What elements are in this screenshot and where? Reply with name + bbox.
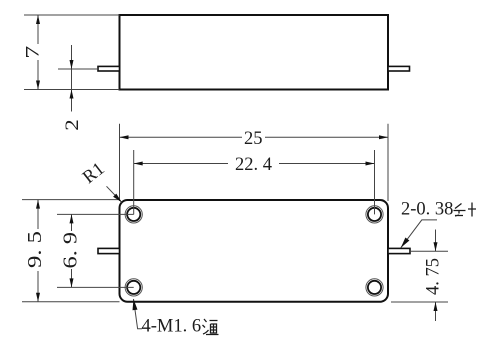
svg-text:6. 9: 6. 9 (60, 232, 82, 269)
top view right pin (388, 66, 410, 71)
svg-text:R1: R1 (79, 159, 108, 188)
top view top edge extension line (24, 14, 120, 16)
hole bottom-right (M1.6) (366, 279, 383, 296)
svg-text:9. 5: 9. 5 (24, 231, 46, 268)
hole top-left (M1.6) (125, 206, 142, 223)
hole bottom-left (M1.6) (125, 279, 142, 296)
dimension 4.75 (pin height, right side) (391, 230, 448, 322)
svg-text:2-0. 38: 2-0. 38 (401, 200, 453, 220)
dimension 9.5 (body height) (22, 200, 120, 302)
dimension 25 (overall width) (120, 124, 389, 201)
svg-text:25: 25 (244, 129, 263, 149)
top view body outline (120, 15, 389, 90)
top view bottom edge extension line (24, 89, 120, 91)
label R1 (corner radius) (79, 159, 122, 202)
label 2-0.38 pin (right pin callout) (401, 200, 476, 248)
svg-text:2: 2 (63, 119, 83, 131)
bottom view right pin centerline (410, 250, 448, 252)
svg-text:7: 7 (24, 46, 44, 59)
bottom view left pin (98, 248, 120, 253)
svg-text:22. 4: 22. 4 (235, 155, 272, 175)
top view left pin (98, 66, 120, 71)
top view left pin centerline (58, 68, 98, 70)
dimension 6.9 (hole spacing vertical) (57, 214, 134, 287)
dimension 22.4 (hole spacing horizontal) (134, 150, 375, 214)
svg-text:4-M1. 6: 4-M1. 6 (142, 316, 202, 336)
bottom view right pin (388, 248, 410, 253)
dimension 7 (top view height) (24, 15, 44, 90)
svg-text:4. 75: 4. 75 (424, 258, 444, 295)
dimension 2 (pin offset, top view) (63, 45, 83, 131)
label 4-M1.6 tapped hole callout (133, 299, 219, 336)
bottom view body outline (120, 200, 389, 302)
hole top-right (M1.6) (366, 206, 383, 223)
